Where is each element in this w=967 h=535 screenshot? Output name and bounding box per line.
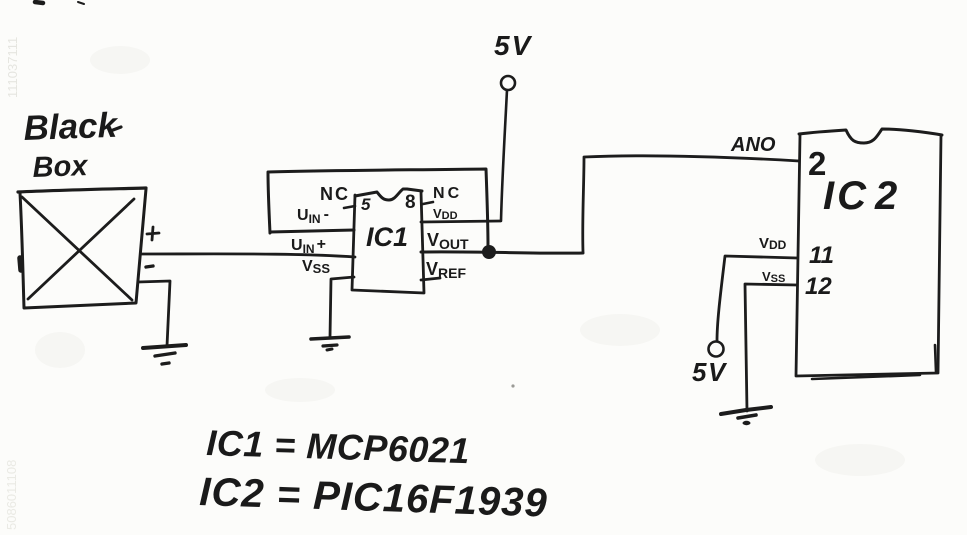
svg-text:5: 5 [361, 195, 371, 214]
svg-text:12: 12 [805, 273, 832, 300]
svg-text:2: 2 [808, 145, 826, 182]
svg-text:IC2: IC2 [823, 174, 900, 218]
svg-text:IC1 = MCP6021: IC1 = MCP6021 [206, 422, 471, 471]
svg-text:VDD: VDD [759, 235, 787, 252]
svg-text:5V: 5V [494, 30, 533, 61]
svg-text:111037111: 111037111 [5, 37, 20, 98]
svg-text:5V: 5V [692, 357, 728, 387]
svg-text:8: 8 [405, 192, 416, 213]
svg-text:VSS: VSS [302, 258, 330, 276]
svg-text:Box: Box [32, 150, 90, 184]
svg-text:Black: Black [23, 106, 119, 148]
svg-text:IC1: IC1 [366, 222, 408, 252]
svg-text:11: 11 [809, 242, 834, 269]
svg-text:ANO: ANO [730, 134, 776, 156]
svg-text:5086011108: 5086011108 [4, 460, 19, 530]
